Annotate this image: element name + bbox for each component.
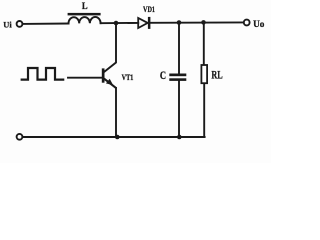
- svg-text:RL: RL: [211, 67, 222, 81]
- svg-text:Ui: Ui: [3, 20, 12, 29]
- svg-text:VT1: VT1: [122, 73, 134, 82]
- svg-text:L: L: [82, 1, 88, 11]
- svg-text:C: C: [160, 70, 166, 82]
- svg-text:Uo: Uo: [253, 19, 264, 30]
- svg-text:VD1: VD1: [143, 4, 155, 14]
